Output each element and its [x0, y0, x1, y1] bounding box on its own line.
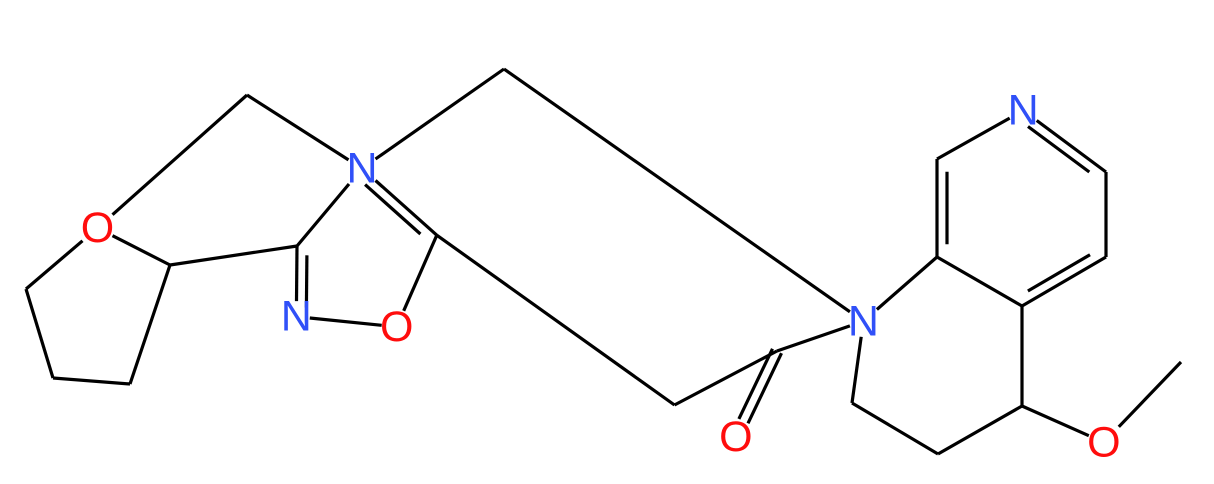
- bond B2-O_R ether: [1022, 406, 1089, 436]
- bond Cc-O_cb carbonyl C=O: [748, 353, 782, 423]
- bond B2-B1 ring B: [938, 406, 1022, 454]
- bond C2-C3p ring: [130, 265, 170, 384]
- bond N4-V1 chain N4 up: [376, 69, 505, 159]
- svg-text:O: O: [380, 303, 413, 351]
- svg-text:O: O: [81, 204, 114, 252]
- svg-text:O: O: [719, 413, 752, 461]
- svg-text:N: N: [346, 145, 377, 193]
- bond A3-A2 pyridine/fused: [937, 257, 1022, 306]
- bond A1-N_py pyridine: [937, 118, 1010, 159]
- bond X-N_am ring B: [852, 337, 861, 403]
- bond O_L-T6 chain straight through O: [113, 95, 248, 215]
- svg-text:N: N: [281, 293, 312, 341]
- bond A4-A3 pyridine double: [1022, 257, 1106, 306]
- bond T6-N4 chain to N4: [247, 95, 349, 160]
- bond B1-X ring B: [852, 403, 938, 454]
- bond C5ox-Bv long chain down: [437, 235, 675, 405]
- bond V1-N_am long chain to amide N: [504, 69, 850, 312]
- bond C2-C3ox link to oxadiazole C3: [170, 246, 297, 265]
- bond Bv-Cc chain to carbonyl: [675, 351, 778, 405]
- bond N_py-A5 pyridine double: [1037, 121, 1106, 173]
- bond C4p-C5p ring: [26, 289, 53, 378]
- bond C3ox-N2 ring double C3=N2: [295, 246, 299, 301]
- bond O_L-C2 ring O-C2: [113, 236, 171, 265]
- bond N_am-A2 ring B: [877, 257, 937, 310]
- bond O_R-CH3r methyl: [1119, 362, 1181, 427]
- bond C5ox-N4 ring double C5=N4: [376, 181, 437, 236]
- svg-text:N: N: [848, 297, 879, 345]
- bond N2-O1 ring N2-O1: [310, 318, 382, 325]
- bond A2-A1 pyridine double: [935, 159, 938, 257]
- bond A5-A4 pyridine: [1104, 172, 1107, 257]
- svg-text:O: O: [1087, 418, 1120, 466]
- bond O1-C5ox ring O1-C5: [404, 235, 437, 311]
- bond C5p-O_L wire oxane C5-O: [26, 241, 83, 289]
- bond Cc-N_am amide C-N: [777, 326, 850, 351]
- bond C3p-C4p ring: [53, 378, 130, 384]
- bond C3ox-N4 ring oxadiazole: [297, 184, 349, 246]
- bond A3-B2 ring B: [1020, 306, 1023, 406]
- svg-text:N: N: [1008, 87, 1039, 135]
